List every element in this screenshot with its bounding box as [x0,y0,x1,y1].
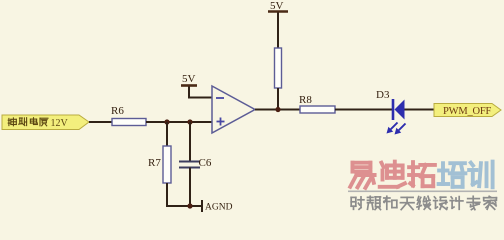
power 5V (to inverting input) [181,73,197,86]
wire: C6 bottom to ground rail [189,168,191,207]
wire: pull-up resistor to output node [277,88,279,110]
svg-text:PWM_OFF: PWM_OFF [443,106,492,117]
wire: op-amp output to R8 [255,109,300,111]
watermark logo 易迪拓培训 [350,162,492,188]
resistor pull-up (unlabelled) [275,48,282,88]
junction node at C6 tap [187,119,192,124]
ground AGND [202,200,233,213]
wire: R8 to D3 [335,109,392,111]
watermark underline [348,191,497,193]
wire: R7 bottom to ground rail [167,183,202,206]
junction node at R7 tap [164,119,169,124]
wire: R6 to op-amp noninverting input [146,121,212,123]
svg-text:R7: R7 [148,157,161,169]
wire: 5V bar to pull-up resistor [277,13,279,49]
svg-text:R6: R6 [111,105,124,117]
diode D3 (LED) [376,89,405,120]
LED emission arrows [387,123,406,135]
wire: tap down to R7 [166,122,168,146]
resistor R6 [111,105,146,126]
resistor R8 [299,94,335,113]
svg-text:AGND: AGND [205,203,233,213]
wire: tap down to C6 [189,122,191,161]
capacitor C6 [179,157,212,169]
svg-text:C6: C6 [199,157,212,169]
svg-text:D3: D3 [376,89,390,101]
netlabel PWM_OFF (output port) [434,104,501,118]
op-amp U (comparator) [212,86,255,133]
svg-text:5V: 5V [182,73,196,85]
power 5V (pull-up) [268,0,288,12]
wire: input flag to R6 [89,121,112,123]
watermark tagline 射频和天线设计专家 [351,196,496,209]
junction node on ground rail [187,203,192,208]
svg-text:12V: 12V [51,118,69,129]
wire: 5V bar to inverting input [189,87,212,98]
resistor R7 [148,146,171,183]
wire: D3 to PWM_OFF port [405,109,435,111]
svg-text:R8: R8 [299,94,312,106]
netlabel 辅助电源 12V (input port) [2,115,89,130]
junction node at output [275,107,280,112]
